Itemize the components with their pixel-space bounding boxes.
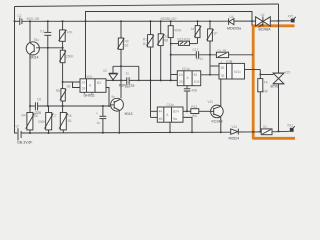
svg-text:250K: 250K [66, 55, 74, 59]
svg-text:1u: 1u [97, 121, 101, 125]
svg-text:47K: 47K [67, 31, 74, 35]
svg-text:S1: S1 [263, 125, 267, 129]
svg-text:1D5: 1D5 [194, 80, 200, 84]
svg-text:V11: V11 [208, 100, 214, 104]
svg-text:V12: V12 [232, 125, 238, 129]
svg-text:3B: 3B [221, 66, 225, 70]
svg-text:B8: B8 [164, 39, 168, 43]
svg-text:R15 R16: R15 R16 [178, 38, 191, 42]
svg-text:1P: 1P [214, 32, 218, 36]
svg-text:46B: 46B [191, 89, 197, 93]
svg-text:V2: V2 [103, 69, 107, 73]
svg-text:1: 1 [221, 60, 223, 64]
svg-text:1B: 1B [82, 87, 86, 91]
svg-text:GB.3V.6F: GB.3V.6F [17, 141, 33, 145]
svg-text:R8: R8 [264, 90, 268, 94]
svg-text:KC348: KC348 [212, 120, 223, 124]
svg-text:B3: B3 [97, 81, 101, 85]
svg-text:2B: 2B [67, 85, 71, 89]
svg-text:2B: 2B [179, 80, 183, 84]
svg-text:2C1a: 2C1a [182, 67, 190, 71]
svg-text:C7: C7 [53, 114, 57, 118]
svg-text:BT08: BT08 [271, 85, 280, 89]
svg-text:200K: 200K [38, 120, 46, 124]
svg-text:MDE05a: MDE05a [227, 27, 241, 31]
svg-text:2B: 2B [68, 119, 72, 123]
svg-text:C1: C1 [18, 14, 22, 18]
svg-text:104: 104 [125, 85, 131, 89]
svg-text:B1: B1 [143, 42, 147, 46]
svg-text:R0524: R0524 [229, 137, 240, 141]
svg-text:91c: 91c [34, 38, 40, 42]
svg-text:9001-0B: 9001-0B [27, 17, 40, 21]
svg-text:B24: B24 [173, 110, 179, 114]
svg-text:R4: R4 [22, 114, 26, 118]
svg-text:B2: B2 [125, 44, 129, 48]
svg-text:44: 44 [159, 110, 163, 114]
svg-text:NE555 40?: NE555 40? [161, 17, 177, 21]
svg-text:V15: V15 [285, 71, 291, 75]
svg-text:R6: R6 [68, 114, 72, 118]
svg-text:4B: 4B [159, 117, 163, 121]
svg-text:5w: 5w [173, 117, 178, 121]
svg-text:7B: 7B [221, 74, 225, 78]
svg-text:1P11: 1P11 [196, 57, 203, 61]
svg-text:U4: U4 [230, 15, 234, 19]
svg-text:0.1: 0.1 [40, 29, 45, 33]
svg-text:C8: C8 [37, 98, 41, 102]
svg-text:GH051: GH051 [84, 93, 95, 97]
svg-text:XS1: XS1 [287, 123, 293, 127]
svg-text:W5: W5 [192, 114, 197, 118]
svg-text:DL 2B: DL 2B [218, 49, 227, 53]
svg-text:1u: 1u [126, 71, 130, 75]
svg-text:R12: R12 [191, 105, 197, 109]
svg-text:C17: C17 [193, 48, 199, 52]
svg-text:b21c: b21c [234, 70, 241, 74]
svg-text:9014: 9014 [31, 56, 39, 60]
svg-text:C14c: C14c [167, 103, 175, 107]
svg-text:9c: 9c [112, 95, 116, 99]
svg-text:B1: B1 [194, 73, 198, 77]
svg-text:4x: 4x [191, 27, 195, 31]
svg-text:XP1: XP1 [288, 14, 294, 18]
svg-text:+: + [96, 112, 98, 116]
svg-text:U2: U2 [261, 13, 265, 17]
svg-text:5B: 5B [34, 114, 38, 118]
svg-text:R5: R5 [56, 89, 60, 93]
svg-text:470K: 470K [174, 29, 182, 33]
svg-text:BCR8A: BCR8A [259, 27, 272, 31]
svg-text:9013: 9013 [125, 112, 133, 116]
svg-text:3: 3 [230, 60, 232, 64]
svg-text:3CK: 3CK [86, 75, 93, 79]
